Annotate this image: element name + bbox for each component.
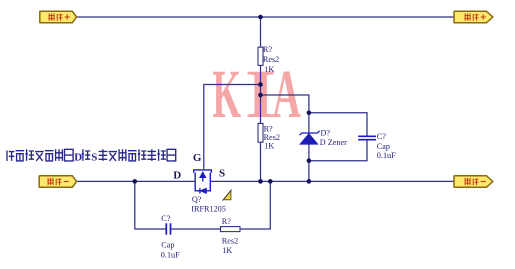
resistor R1 top: [258, 47, 263, 65]
svg-text:Q?: Q?: [192, 195, 202, 204]
junction dot 6: [133, 179, 138, 184]
svg-text:IRFR1205: IRFR1205: [191, 205, 226, 214]
port input+: [40, 11, 77, 23]
transistor Q1 MOSFET: [194, 170, 212, 194]
svg-text:1K: 1K: [264, 142, 274, 151]
svg-text:K: K: [212, 56, 241, 132]
svg-text:G: G: [193, 152, 202, 164]
junction dot 3: [258, 93, 263, 98]
wire snubber loop right: [240, 181, 270, 229]
svg-text:D: D: [173, 170, 181, 182]
wire snubber loop left: [135, 181, 166, 229]
capacitor C2 labels: [377, 132, 396, 160]
svg-text:Res2: Res2: [263, 55, 279, 64]
svg-text:Cap: Cap: [161, 241, 174, 250]
svg-text:Res2: Res2: [222, 237, 238, 246]
port input-: [39, 176, 76, 188]
svg-text:C?: C?: [161, 214, 170, 223]
junction dot 5: [307, 158, 312, 163]
wire zener branch: [261, 95, 309, 181]
svg-text:D: D: [74, 151, 82, 163]
junction dot 7: [258, 179, 263, 184]
resistor R3 labels: [222, 217, 238, 255]
resistor R2 labels: [264, 125, 280, 151]
svg-text:R?: R?: [222, 217, 231, 226]
svg-text:D?: D?: [321, 128, 331, 137]
capacitor C2 plates: [358, 136, 376, 139]
junction dot 8: [268, 179, 273, 184]
wire bottom rail right (S side): [210, 180, 454, 182]
svg-text:0.1uF: 0.1uF: [161, 251, 180, 260]
resistor R2 middle: [258, 123, 263, 142]
port output-: [454, 176, 493, 188]
transistor Q1 labels: [191, 195, 226, 214]
port output+: [454, 11, 493, 23]
svg-text:1K: 1K: [264, 65, 274, 74]
annotation note text (Chinese): [7, 151, 14, 161]
resistor R1 labels: [263, 45, 279, 74]
junction dot 1: [258, 15, 263, 20]
no-ERC marker triangle: [223, 191, 231, 200]
svg-text:D Zener: D Zener: [320, 138, 347, 147]
wire bottom rail left (D side): [76, 180, 195, 182]
svg-text:C?: C?: [377, 132, 386, 141]
svg-text:0.1uF: 0.1uF: [377, 151, 396, 160]
junction dot 4: [307, 111, 312, 116]
svg-text:1K: 1K: [222, 246, 232, 255]
wire cap C2 branch top: [309, 113, 367, 136]
wire top rail: [76, 16, 454, 18]
svg-text:R?: R?: [263, 45, 272, 54]
wire through zener: [308, 134, 310, 144]
svg-text:Cap: Cap: [377, 142, 390, 151]
wire snubber loop middle: [171, 228, 221, 230]
KIA watermark: [212, 56, 300, 133]
svg-text:S: S: [91, 151, 97, 163]
junction dot 9: [307, 179, 312, 184]
wire gate branch: [204, 85, 261, 170]
resistor R3 bottom: [221, 227, 241, 232]
zener D1 labels: [320, 128, 347, 147]
svg-text:S: S: [219, 168, 225, 180]
wire R1 branch vertical: [260, 17, 262, 181]
zener diode D1: [300, 131, 320, 144]
capacitor C1 plates: [166, 223, 170, 235]
junction dot 2: [258, 82, 263, 87]
wire cap C2 branch bottom: [309, 140, 367, 161]
capacitor C1 labels: [161, 214, 180, 260]
